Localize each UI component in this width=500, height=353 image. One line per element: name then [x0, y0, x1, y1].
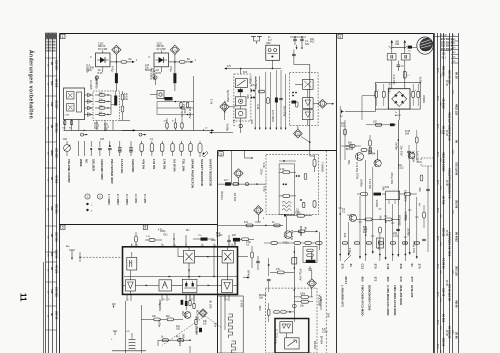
svg-text:470µ 16V: 470µ 16V: [298, 269, 302, 281]
svg-text:303 118: 303 118: [455, 266, 459, 276]
svg-text:WIRE: WIRE: [79, 159, 83, 167]
oscillator coil can: [217, 296, 243, 353]
svg-text:1: 1: [378, 90, 379, 92]
svg-text:3.3k: 3.3k: [262, 163, 266, 169]
right data table: [435, 33, 459, 353]
svg-text:A3 127: A3 127: [54, 100, 58, 109]
svg-text:C: C: [90, 56, 92, 59]
svg-text:96 5: 96 5: [436, 180, 438, 185]
AF thick module: [275, 319, 309, 353]
FM main feed wire: [292, 50, 316, 151]
svg-text:1k8: 1k8: [363, 231, 368, 234]
audio area value labels: [86, 68, 192, 119]
svg-text:3: 3: [163, 245, 164, 247]
svg-text:418: 418: [399, 264, 403, 269]
terminal label block: [341, 264, 422, 317]
ring mixer side resistors: [375, 84, 420, 106]
svg-text:1n5 250V: 1n5 250V: [404, 190, 408, 202]
AFC connect wires: [311, 252, 313, 297]
svg-text:2 = 400V: 2 = 400V: [116, 194, 120, 205]
section border legend top: [60, 224, 218, 226]
svg-text:1 W 5%: 1 W 5%: [152, 159, 156, 170]
svg-text:302 361: 302 361: [54, 123, 58, 133]
test point diamond 8b: [294, 126, 310, 143]
test point diamond 1: [112, 45, 121, 62]
right edge capacitors: [418, 189, 430, 240]
vertical wire bundle: [339, 120, 419, 252]
bottom bus wire: [112, 346, 190, 353]
svg-text:2x39p: 2x39p: [375, 200, 379, 208]
svg-text:96 48: 96 48: [445, 180, 447, 186]
svg-text:0341-455-MOD: 0341-455-MOD: [399, 285, 403, 305]
svg-text:4822 118: 4822 118: [455, 104, 459, 116]
svg-text:10n: 10n: [341, 125, 346, 128]
svg-text:310: 310: [50, 206, 54, 211]
svg-text:10n 63V: 10n 63V: [283, 106, 287, 117]
svg-text:1n5 250V: 1n5 250V: [188, 107, 192, 119]
AGC feed row: [218, 222, 283, 227]
svg-text:TOL 10%: TOL 10%: [182, 159, 186, 172]
module internal wires: [123, 247, 238, 295]
svg-text:BF494: BF494: [320, 336, 324, 345]
svg-text:VIOLETTA 22RB253 TS: VIOLETTA 22RB253 TS: [448, 168, 452, 199]
svg-text:10n 63V: 10n 63V: [400, 145, 404, 156]
svg-text:310 358: 310 358: [54, 60, 58, 70]
svg-text:6.8µ: 6.8µ: [348, 248, 352, 254]
module surround labels: [158, 230, 224, 347]
svg-text:C 2123: C 2123: [274, 329, 278, 338]
svg-text:C: C: [149, 56, 151, 59]
svg-text:3 = 250V: 3 = 250V: [125, 194, 129, 205]
svg-text:CON: CON: [65, 115, 70, 117]
svg-text:4.7k 5%: 4.7k 5%: [368, 179, 372, 190]
right sheet right edge parts: [417, 158, 434, 252]
Philips crest emblem: [417, 37, 433, 54]
svg-text:96 5: 96 5: [436, 96, 438, 101]
svg-text:9: 9: [128, 299, 129, 301]
svg-text:6V3: 6V3: [243, 72, 248, 74]
svg-text:33n: 33n: [63, 138, 68, 141]
test point diamond 7: [234, 169, 243, 184]
svg-text:1k8: 1k8: [343, 233, 347, 238]
dashed rail near divider: [325, 151, 327, 353]
svg-text:5: 5: [203, 245, 204, 247]
test point diamond 2: [170, 45, 179, 62]
ring mixer module with diode quad: [388, 89, 410, 109]
svg-text:270: 270: [417, 264, 421, 269]
svg-text:8V2: 8V2: [310, 41, 315, 44]
svg-text:1k8: 1k8: [259, 297, 264, 300]
svg-text:8V2: 8V2: [303, 227, 307, 232]
tuning diamond test point: [199, 309, 207, 317]
sheet left border: [59, 34, 61, 353]
section marker 4: [338, 34, 342, 38]
svg-text:BC548B: BC548B: [195, 310, 199, 321]
svg-text:470µ: 470µ: [169, 66, 172, 72]
legend misc row: [63, 138, 154, 141]
svg-text:96 312 30: 96 312 30: [448, 326, 452, 339]
left code strip: [44, 33, 59, 353]
sheet top border: [60, 33, 434, 35]
svg-text:120p: 120p: [260, 168, 264, 175]
svg-text:1n5 250V: 1n5 250V: [254, 77, 258, 89]
svg-text:R 3305: R 3305: [150, 68, 154, 77]
svg-text:100: 100: [176, 328, 181, 331]
svg-text:96 4822: 96 4822: [455, 232, 459, 242]
mixer feed lines: [340, 96, 396, 161]
fm sheet labels: [343, 74, 422, 253]
svg-text:96 48: 96 48: [445, 280, 447, 286]
resistor R212: [169, 59, 197, 63]
ground symbols pair: [251, 37, 272, 45]
svg-text:2x39p: 2x39p: [360, 179, 364, 187]
svg-text:8V2: 8V2: [181, 311, 185, 316]
svg-text:470µ 16V: 470µ 16V: [390, 172, 394, 184]
svg-text:96 5: 96 5: [436, 236, 438, 241]
mixer-oscillator dashed block: [266, 151, 325, 218]
audio cell 1 labels: [90, 43, 108, 59]
center-right components: [238, 241, 260, 270]
module pin stubs top: [132, 244, 234, 248]
svg-text:2x39p: 2x39p: [395, 142, 399, 150]
svg-text:1k8: 1k8: [327, 313, 331, 318]
svg-text:303: 303: [50, 81, 54, 86]
center bottom parts: [232, 235, 254, 242]
svg-text:56k: 56k: [347, 160, 351, 165]
svg-text:10n 63V: 10n 63V: [377, 239, 381, 250]
svg-text:BF494: BF494: [247, 270, 251, 279]
sheet right border: [433, 34, 435, 353]
terminal arrows row: [339, 251, 418, 262]
test point diamond 8: [254, 206, 265, 222]
svg-text:33n: 33n: [418, 187, 422, 192]
test point diamond 2: [313, 99, 334, 108]
legend labels: [67, 159, 213, 189]
bottom pill components: [342, 242, 420, 244]
svg-text:4: 4: [175, 245, 176, 247]
svg-text:TS 88 96: TS 88 96: [442, 258, 446, 269]
svg-text:96 5: 96 5: [436, 124, 438, 129]
svg-text:39 190: 39 190: [209, 300, 213, 309]
svg-text:SPARK PROTECTOR: SPARK PROTECTOR: [191, 159, 195, 189]
svg-text:4822: 4822: [50, 150, 54, 156]
svg-text:AB 96: AB 96: [455, 300, 459, 308]
svg-text:51: 51: [410, 264, 414, 268]
svg-text:4.7k 5%: 4.7k 5%: [355, 162, 359, 173]
svg-text:96 5: 96 5: [436, 264, 438, 269]
section marker 3: [219, 152, 223, 156]
ground bus 1: [62, 120, 136, 137]
svg-text:310 356: 310 356: [54, 232, 58, 242]
oscillator components row: [357, 186, 417, 204]
cell2 tone network: [157, 76, 194, 130]
legend symbols row: [64, 141, 133, 156]
buffer transistor TS2: [342, 208, 357, 221]
svg-text:BC148: BC148: [346, 149, 354, 151]
svg-text:96 5: 96 5: [436, 68, 438, 73]
svg-text:96 5: 96 5: [436, 208, 438, 213]
svg-text:1k8: 1k8: [233, 241, 237, 246]
svg-text:2x39p: 2x39p: [407, 228, 411, 236]
svg-text:3TY: 3TY: [410, 277, 414, 283]
svg-text:48 120: 48 120: [54, 265, 58, 274]
svg-text:C365: C365: [295, 213, 301, 215]
tuner input antenna glyph: [66, 245, 123, 262]
AF module left parts: [243, 258, 271, 322]
svg-text:13: 13: [226, 299, 228, 301]
svg-text:1Ω: 1Ω: [98, 70, 101, 72]
svg-text:8V2: 8V2: [158, 303, 162, 308]
output coupling 1: [120, 91, 131, 121]
stabilizer output wire cluster: [251, 70, 287, 130]
svg-text:POLYESTER 400V: POLYESTER 400V: [110, 159, 114, 184]
AF dashed module outline: [266, 288, 318, 353]
svg-text:FMO-C600-AFC2-MOD-: FMO-C600-AFC2-MOD-: [361, 285, 365, 317]
ferrite rod coil: [126, 331, 136, 349]
svg-text:SAFETY RESISTOR: SAFETY RESISTOR: [200, 159, 204, 187]
test point diamond 6: [220, 102, 236, 120]
svg-text:20 96: 20 96: [455, 332, 459, 339]
svg-text:303 351: 303 351: [54, 204, 58, 214]
svg-text:120p: 120p: [211, 240, 217, 242]
ring mixer loop: [376, 82, 421, 109]
svg-text:SOLDER: SOLDER: [91, 159, 95, 172]
section border center top: [218, 150, 337, 152]
section marker 5a: [143, 225, 147, 229]
svg-text:1n5 250V: 1n5 250V: [415, 151, 419, 163]
svg-text:1 = 500V: 1 = 500V: [107, 194, 111, 205]
svg-text:2x39p: 2x39p: [226, 123, 230, 131]
svg-text:960: 960: [361, 277, 365, 282]
svg-text:6V 0.5W: 6V 0.5W: [157, 48, 167, 51]
antenna matching capacitors: [387, 48, 410, 89]
svg-text:6.8µ: 6.8µ: [95, 76, 99, 82]
svg-text:8Ω: 8Ω: [129, 59, 132, 61]
svg-text:96 48: 96 48: [445, 330, 447, 336]
svg-text:310 48: 310 48: [442, 288, 446, 297]
cell2 ground bus: [122, 128, 214, 137]
module left return wire: [111, 301, 141, 353]
IF feed wire: [218, 180, 266, 202]
diamond 9 test point: [307, 279, 316, 288]
svg-text:OM361: OM361: [422, 95, 425, 104]
svg-text:10.7: 10.7: [224, 180, 229, 182]
svg-text:310: 310: [50, 289, 54, 294]
svg-text:96 5: 96 5: [436, 344, 438, 349]
svg-text:303 96: 303 96: [442, 338, 446, 347]
AM osc boxed stage: [303, 246, 317, 270]
svg-text:22k: 22k: [295, 208, 299, 213]
svg-text:4 = 63V: 4 = 63V: [134, 194, 138, 204]
module amp A2: [222, 280, 233, 293]
svg-text:8V2: 8V2: [258, 306, 262, 311]
svg-text:100k: 100k: [300, 294, 306, 296]
svg-text:4 W 5%: 4 W 5%: [142, 159, 146, 170]
svg-text:270: 270: [341, 264, 345, 269]
discriminator cluster: [141, 295, 222, 346]
svg-text:BC548B: BC548B: [398, 215, 402, 226]
svg-text:8V2: 8V2: [163, 235, 168, 237]
module lambda stage: [159, 280, 172, 291]
discriminator lower row: [158, 337, 191, 346]
svg-text:33n: 33n: [213, 323, 217, 328]
svg-text:470µ 16V: 470µ 16V: [223, 101, 227, 113]
svg-text:AA119: AA119: [395, 114, 402, 117]
mid resistors row: [357, 218, 401, 248]
svg-text:8Ω: 8Ω: [187, 59, 190, 61]
svg-text:270: 270: [373, 264, 377, 269]
svg-text:39 532: 39 532: [54, 79, 58, 88]
FM demod dashed block: [289, 73, 318, 126]
IF section entry wires: [232, 151, 254, 185]
svg-text:100µ: 100µ: [404, 214, 408, 221]
svg-text:7 BAND: 7 BAND: [321, 162, 325, 172]
capacitor C105: [111, 62, 118, 91]
svg-text:6: 6: [215, 245, 216, 247]
svg-text:4.7k 5%: 4.7k 5%: [392, 74, 396, 85]
svg-text:2: 2: [415, 90, 416, 92]
svg-text:3: 3: [220, 152, 222, 156]
svg-text:L-455-MOD-AFC: L-455-MOD-AFC: [341, 285, 345, 308]
svg-text:96 48: 96 48: [445, 230, 447, 236]
svg-text:C13: C13: [361, 264, 365, 270]
svg-text:AB 3102: AB 3102: [442, 98, 446, 109]
svg-text:300 35: 300 35: [54, 311, 58, 320]
svg-text:120p: 120p: [248, 77, 252, 84]
svg-text:303 96: 303 96: [455, 200, 459, 209]
svg-text:1k8: 1k8: [405, 133, 410, 136]
svg-text:4 822: 4 822: [441, 35, 447, 37]
svg-text:96 5: 96 5: [436, 152, 438, 157]
svg-text:010: 010: [399, 277, 403, 282]
svg-text:3103 108: 3103 108: [46, 50, 56, 52]
IC U201 with diode: [154, 51, 169, 67]
svg-text:1 W 5%: 1 W 5%: [162, 159, 166, 170]
svg-text:VOLUME CONTR: VOLUME CONTR: [67, 159, 71, 183]
mid-top value labels: [210, 77, 259, 131]
svg-text:C-455-MOD-AFC-MOD-: C-455-MOD-AFC-MOD-: [386, 285, 390, 316]
svg-text:AM: AM: [66, 245, 69, 248]
center value labels: [233, 163, 308, 247]
module input filter box: [127, 252, 137, 270]
svg-text:Änderungen vorbehalten: Änderungen vorbehalten: [28, 50, 35, 119]
section marker 1: [61, 34, 65, 38]
svg-text:3103 108: 3103 108: [46, 44, 56, 46]
svg-text:0.5 W 5%: 0.5 W 5%: [173, 159, 177, 172]
svg-text:SVM-A5T: SVM-A5T: [410, 285, 414, 298]
ladder value labels 1: [94, 123, 110, 131]
svg-text:5: 5: [145, 226, 147, 230]
svg-text:310 328: 310 328: [54, 148, 58, 158]
balun capacitor: [397, 61, 405, 72]
resistor R108 network: [87, 64, 104, 85]
resistor ladder 1 (dashed block): [85, 91, 120, 121]
svg-text:96 48: 96 48: [445, 130, 447, 136]
balun coil: [403, 71, 410, 78]
svg-text:FMO-1600-AFC2-MOD-: FMO-1600-AFC2-MOD-: [393, 285, 397, 316]
legend resistor symbols: [140, 141, 208, 157]
svg-text:6.8µ: 6.8µ: [263, 186, 267, 192]
svg-text:DEMOD/OSY-C365: DEMOD/OSY-C365: [368, 285, 372, 311]
svg-text:470µ: 470µ: [111, 66, 114, 72]
svg-text:FLAT-FOIL: FLAT-FOIL: [120, 159, 124, 174]
svg-text:56k: 56k: [382, 186, 386, 191]
svg-text:3.3k: 3.3k: [256, 104, 260, 110]
svg-text:49 986: 49 986: [54, 175, 58, 184]
return wire: [203, 130, 233, 134]
FM dipole antenna: [389, 40, 417, 53]
svg-text:310: 310: [50, 102, 54, 107]
svg-text:96 725: 96 725: [442, 196, 446, 205]
svg-text:11: 11: [19, 293, 28, 302]
svg-text:5: 5: [62, 226, 64, 230]
svg-text:4822 400 10365: 4822 400 10365: [442, 152, 446, 172]
module feed pill row: [264, 242, 322, 245]
svg-text:M171: M171: [344, 277, 348, 285]
module mixer 1: [183, 250, 194, 263]
right top corner parts: [290, 36, 315, 50]
capacitor C205: [169, 62, 176, 91]
svg-text:R 3305: R 3305: [388, 83, 392, 92]
svg-text:4822 157 VIBRATO 96: 4822 157 VIBRATO 96: [448, 112, 452, 141]
module pin stubs bottom: [127, 294, 229, 301]
ring mixer labels: [395, 95, 425, 117]
svg-text:11: 11: [168, 299, 170, 301]
svg-text:2x39p: 2x39p: [158, 320, 162, 328]
svg-text:96 30: 96 30: [455, 72, 459, 79]
svg-text:BF494: BF494: [178, 338, 182, 347]
AF pills stack: [294, 294, 321, 308]
module mixer 2: [222, 250, 233, 263]
svg-text:SK 30 118 96: SK 30 118 96: [448, 284, 452, 301]
legend voltage key: [85, 194, 147, 213]
svg-text:10n: 10n: [124, 98, 129, 101]
svg-text:R 3305: R 3305: [89, 81, 93, 90]
svg-text:6V 0.5W: 6V 0.5W: [98, 48, 108, 51]
svg-text:5 = 25V: 5 = 25V: [143, 194, 147, 204]
svg-text:2x39p: 2x39p: [418, 77, 422, 85]
svg-text:96 5: 96 5: [436, 292, 438, 297]
svg-text:1k8: 1k8: [100, 138, 105, 141]
speaker switch block 1: [64, 88, 85, 120]
center-right labels: [247, 269, 331, 350]
sheet divider between audio and FM sections: [336, 34, 338, 353]
oscillator transistor TS1: [368, 135, 381, 167]
svg-text:271: 271: [373, 277, 377, 282]
supply rail wire: [224, 66, 281, 74]
AF main vertical wire: [270, 246, 297, 319]
svg-text:22k: 22k: [86, 68, 90, 73]
cell2 feedback box: [150, 91, 173, 101]
svg-text:96: 96: [455, 140, 459, 143]
svg-text:S 454: S 454: [240, 300, 244, 308]
resistor R112: [110, 59, 138, 63]
svg-text:312 96: 312 96: [54, 250, 58, 259]
svg-text:2122: 2122: [322, 331, 328, 334]
svg-text:BF494: BF494: [195, 327, 199, 336]
stabilizer dashed block: [234, 74, 251, 133]
svg-text:96 303: 96 303: [442, 314, 446, 323]
svg-text:120p: 120p: [273, 339, 277, 346]
svg-text:3103 108: 3103 108: [46, 47, 56, 49]
svg-text:1n5 250V: 1n5 250V: [271, 110, 275, 122]
section border center left: [217, 151, 219, 353]
svg-text:12V: 12V: [227, 66, 232, 68]
svg-text:96 5: 96 5: [436, 320, 438, 325]
svg-text:470µ 16V: 470µ 16V: [412, 241, 416, 253]
svg-text:BF494: BF494: [313, 341, 317, 350]
svg-text:4.03: 4.03: [386, 264, 390, 270]
